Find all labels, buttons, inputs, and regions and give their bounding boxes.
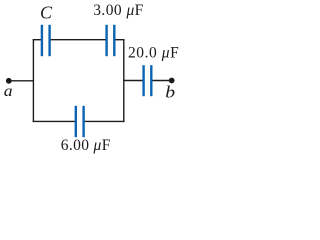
capacitor 20.0uF left plate	[142, 65, 144, 96]
capacitor 6.00uF right plate	[82, 106, 84, 137]
wire right vertical	[123, 39, 125, 122]
svg-text:b: b	[165, 83, 175, 102]
wire top segment right of C2	[114, 39, 124, 41]
svg-text:3.00 μF: 3.00 μF	[93, 2, 144, 19]
capacitor 6.00uF left plate	[75, 106, 77, 137]
node b terminal dot	[169, 78, 175, 84]
wire bottom segment left of C4	[33, 120, 76, 122]
capacitor 20.0uF right plate	[150, 65, 152, 96]
capacitor C left plate	[41, 25, 43, 56]
node a terminal dot	[6, 78, 12, 84]
svg-text:6.00 μF: 6.00 μF	[61, 137, 111, 154]
wire left vertical	[32, 39, 34, 122]
wire top segment between C and C2	[50, 39, 107, 41]
capacitor 3.00uF right plate	[113, 25, 115, 56]
svg-text:C: C	[40, 3, 53, 23]
wire top segment left of C	[33, 39, 42, 41]
wire stub from node a to left vertical	[9, 80, 34, 82]
wire stub from right vertical to C3	[123, 80, 144, 82]
capacitor C right plate	[48, 25, 50, 56]
svg-text:a: a	[4, 83, 13, 100]
svg-text:20.0 μF: 20.0 μF	[128, 45, 179, 62]
wire bottom segment right of C4	[84, 120, 125, 122]
wire stub from C3 to node b	[151, 80, 171, 82]
capacitor 3.00uF left plate	[105, 25, 107, 56]
